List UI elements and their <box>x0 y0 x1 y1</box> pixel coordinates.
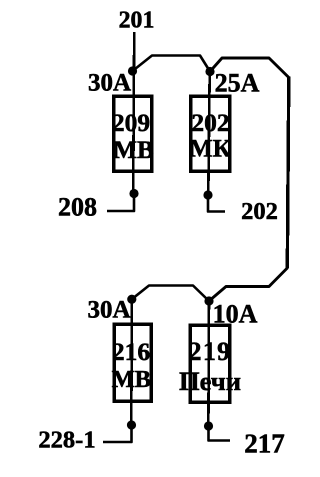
wire from 201 down through fuse F1 to bottom junction <box>133 32 134 194</box>
svg-text:202: 202 <box>191 108 229 137</box>
fuse F3 box <box>114 324 151 401</box>
node junction dot below F2 <box>203 190 212 199</box>
wire elbow below F3 to terminal 228-1 <box>103 425 132 442</box>
node junction dot below F4 <box>204 421 213 430</box>
svg-text:228-1: 228-1 <box>38 427 95 454</box>
node B junction dot (top right) <box>205 67 214 76</box>
node A junction dot (top left) <box>128 66 137 75</box>
svg-text:25A: 25A <box>215 69 260 98</box>
fuse F4 box <box>190 325 230 402</box>
wire from junction C down through fuse F3 <box>130 299 133 425</box>
svg-text:30A: 30A <box>87 297 130 324</box>
svg-text:202: 202 <box>241 198 278 225</box>
node D junction dot (row2 right) <box>204 296 213 305</box>
svg-text:201: 201 <box>119 8 155 34</box>
wire from junction B down through fuse F2 <box>208 72 209 196</box>
wire row2 bump between junction C and junction D <box>132 286 209 302</box>
svg-text:219: 219 <box>189 337 232 366</box>
svg-text:30A: 30A <box>88 70 131 97</box>
svg-text:МВ: МВ <box>113 135 154 164</box>
node junction dot below F3 <box>127 420 136 429</box>
fuse F1 box <box>114 96 152 171</box>
svg-text:208: 208 <box>58 193 97 222</box>
svg-text:216: 216 <box>112 337 150 366</box>
wire from junction D down through fuse F4 <box>207 301 210 426</box>
node C junction dot (row2 left) <box>127 295 136 304</box>
svg-text:Печи: Печи <box>179 366 241 396</box>
svg-text:МВ: МВ <box>112 366 151 393</box>
svg-text:217: 217 <box>244 429 285 459</box>
node junction dot below F1 <box>129 189 138 198</box>
wire elbow below F2 to terminal 202 <box>208 195 225 212</box>
svg-text:209: 209 <box>112 108 150 137</box>
wire top bump between junction A and junction B <box>133 56 211 72</box>
wire elbow below F1 to terminal 208 <box>107 194 134 212</box>
svg-text:МК: МК <box>189 136 231 163</box>
wire long right-side run from junction B to junction D <box>210 58 289 78</box>
wire right-side vertical run <box>287 77 289 269</box>
fuse F2 box <box>191 96 230 171</box>
wire lower elbow of right-side run to junction D <box>209 268 287 301</box>
wire elbow below F4 to terminal 217 <box>209 426 231 441</box>
